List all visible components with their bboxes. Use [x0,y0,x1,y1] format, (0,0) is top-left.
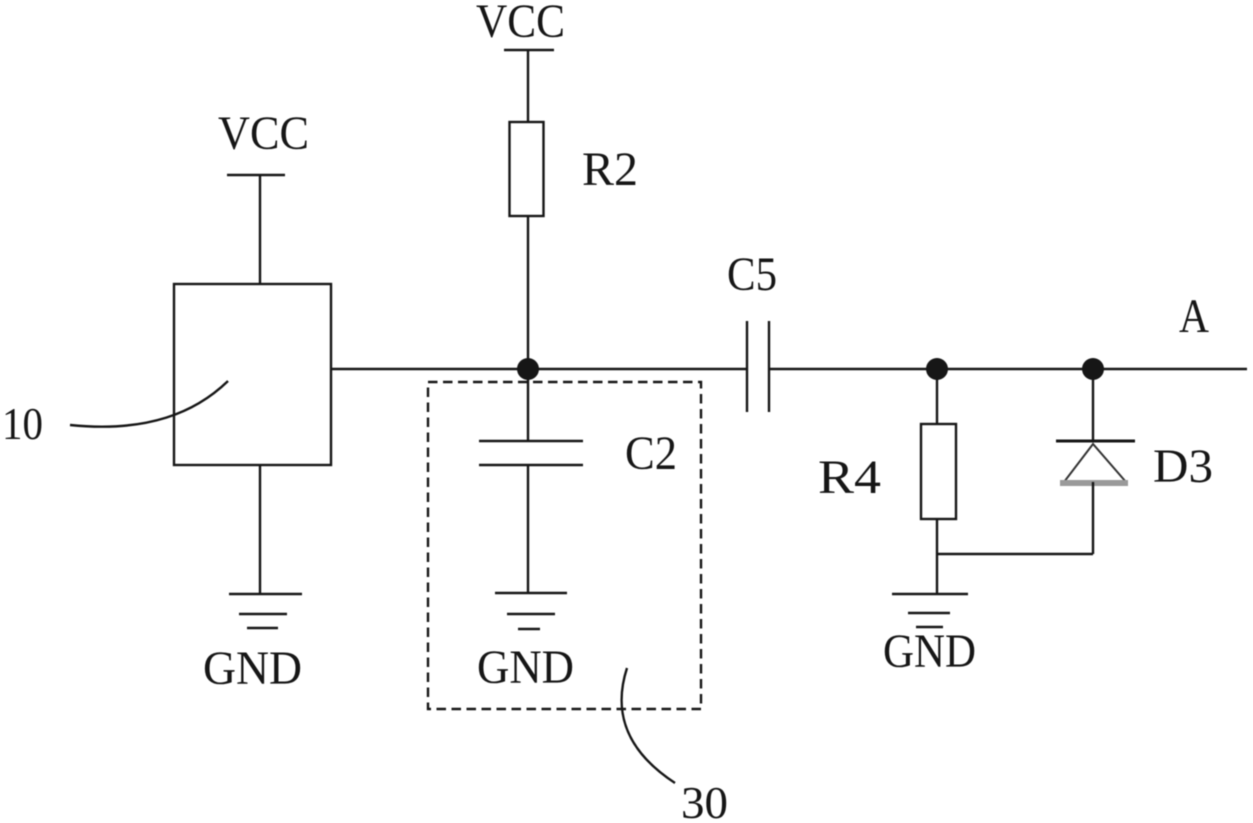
diode D3 [1056,441,1135,483]
wire node N3 to output A [1093,368,1247,370]
resistor R4 [921,424,956,519]
svg-text:GND: GND [477,641,574,694]
svg-text:VCC: VCC [476,0,565,48]
ground GND (under R4) [883,594,976,678]
wire C5 left lead [528,368,747,370]
wire R2 to node N1 [527,216,529,369]
power symbol VCC (left supply) [218,107,309,175]
ground GND (under block 10) [203,594,302,695]
svg-text:R2: R2 [582,143,638,196]
wire node N2 to R4 [936,369,938,424]
dashed enclosure 30 [428,382,701,709]
wire node N2 to node N3 [937,368,1093,370]
power symbol VCC (top supply for R2) [476,0,565,50]
wire node N1 to C2 [527,369,529,441]
wire node N3 to D3 cathode [1092,369,1094,441]
wire R4 to ground [936,519,938,594]
block 10 (component box) [174,284,331,465]
svg-text:30: 30 [681,777,728,823]
wire VCC top to R2 [527,50,529,122]
leader line to label 10 [70,381,228,427]
wire R4 bottom to D3 anode [937,553,1093,555]
svg-text:D3: D3 [1153,440,1213,493]
junction node N3 [1082,358,1104,380]
svg-text:A: A [1179,290,1209,343]
svg-text:GND: GND [883,625,976,678]
wire C5 to node N2 [769,368,937,370]
svg-text:C2: C2 [625,427,677,480]
svg-text:R4: R4 [818,451,881,504]
wire block 10 output to node N1 [331,368,528,370]
resistor R2 [510,122,544,216]
ground GND (under C2) [477,593,574,694]
wire VCC left to block 10 [259,175,261,284]
wire block 10 bottom to ground [259,465,261,594]
svg-text:C5: C5 [727,248,777,301]
capacitor C5 [747,321,769,412]
wire C2 to ground [527,465,529,593]
leader line to label 30 [622,668,675,783]
svg-text:VCC: VCC [218,107,309,160]
wire D3 anode down [1092,482,1094,554]
junction node N1 [517,358,539,380]
capacitor C2 [479,441,583,465]
junction node N2 [926,358,948,380]
svg-text:GND: GND [203,642,302,695]
svg-text:10: 10 [2,398,43,449]
